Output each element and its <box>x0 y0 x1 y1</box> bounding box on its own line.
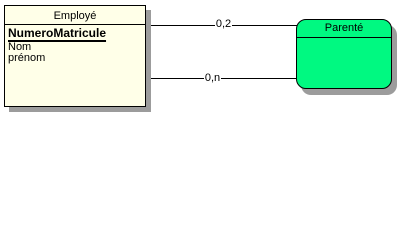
entity Employé <box>4 5 146 107</box>
wire: bottom connector Employé→Parenté <box>146 78 296 79</box>
entity title separator <box>5 24 145 25</box>
entity title Employé <box>5 7 145 25</box>
shadow of association Parenté <box>301 25 397 95</box>
attribute Nom <box>8 41 31 53</box>
wire: top connector Employé→Parenté <box>146 25 298 26</box>
cardinality label 0,2 <box>215 18 232 31</box>
attribute NumeroMatricule (identifier) <box>8 26 106 40</box>
association title Parenté <box>297 20 391 37</box>
shadow of entity Employé <box>9 10 151 112</box>
attribute prénom <box>8 52 45 64</box>
association Parenté <box>296 19 392 89</box>
cardinality label 0,n <box>204 72 221 85</box>
association title separator <box>297 37 391 38</box>
